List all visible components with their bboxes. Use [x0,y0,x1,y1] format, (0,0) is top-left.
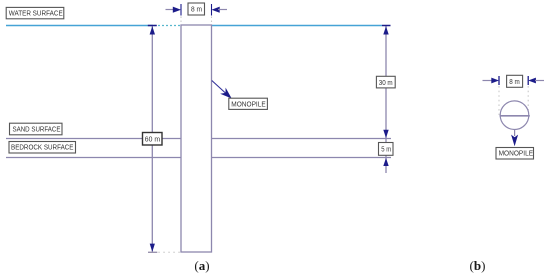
svg-text:BEDROCK SURFACE: BEDROCK SURFACE [11,143,74,152]
svg-text:30 m: 30 m [379,78,393,87]
svg-text:8 m: 8 m [191,5,202,14]
svg-text:60 m: 60 m [145,134,160,143]
svg-text:8 m: 8 m [509,77,520,86]
svg-text:WATER SURFACE: WATER SURFACE [9,8,63,17]
svg-text:(b): (b) [470,258,486,273]
svg-text:(a): (a) [194,258,209,273]
svg-text:MONOPILE: MONOPILE [231,100,265,109]
svg-text:SAND SURFACE: SAND SURFACE [13,124,61,133]
svg-text:MONOPILE: MONOPILE [499,149,533,158]
svg-text:5 m: 5 m [381,144,391,153]
